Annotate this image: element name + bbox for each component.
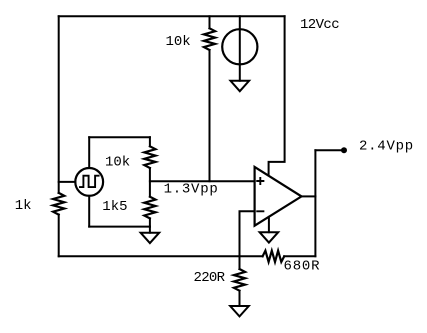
wire bottom right segment: [284, 255, 315, 257]
wire op-amp output: [302, 195, 316, 197]
wire box right upper stub: [149, 137, 151, 146]
ground (under divider box): [141, 233, 160, 243]
svg-text:2.4Vpp: 2.4Vpp: [359, 139, 414, 155]
resistor 1k5: [144, 197, 155, 219]
wire left rail lower: [58, 215, 60, 257]
ground (under op-amp): [260, 232, 279, 242]
resistor 10k top: [204, 28, 215, 50]
svg-text:1k: 1k: [15, 198, 32, 214]
ground (under 220R): [230, 306, 249, 316]
wire op-amp power drop: [269, 16, 285, 175]
resistor 10k divider: [144, 146, 155, 168]
node output dot: [341, 147, 347, 153]
resistor 220R: [234, 269, 245, 291]
wire divider bottom stub: [149, 218, 151, 226]
wire output vertical: [314, 150, 316, 256]
wire tap to op-amp plus input: [150, 180, 255, 182]
svg-text:1k5: 1k5: [102, 199, 127, 215]
ground (under current source): [231, 81, 250, 91]
wire box bottom: [89, 226, 150, 228]
svg-text:220R: 220R: [194, 270, 226, 286]
wire 10k branch top: [209, 16, 211, 28]
wire bottom rail: [59, 255, 263, 257]
wire 10k branch bottom: [209, 50, 211, 181]
wire current source branch: [239, 16, 241, 81]
op-amp minus sign: [257, 210, 263, 212]
wire 220R top stub: [239, 256, 241, 269]
svg-text:680R: 680R: [284, 259, 321, 275]
svg-text:12Vcc: 12Vcc: [300, 17, 339, 33]
current source I1: [222, 29, 257, 64]
square-wave glyph: [80, 176, 99, 187]
op-amp plus sign: [257, 178, 263, 184]
wire divider middle: [149, 168, 151, 197]
resistor 1k: [53, 193, 64, 215]
wire box top: [89, 136, 150, 138]
svg-text:1.3Vpp: 1.3Vpp: [164, 182, 219, 198]
svg-text:10k: 10k: [166, 34, 191, 50]
wire top rail: [59, 15, 285, 17]
wire square-wave source left stub: [59, 181, 76, 183]
wire inverting input: [240, 211, 255, 256]
wire box ground stub: [149, 227, 151, 233]
wire output top: [315, 149, 344, 151]
resistor 680R: [263, 251, 285, 262]
square-wave source V1: [75, 168, 103, 196]
wire left rail upper: [58, 16, 60, 193]
wire op-amp ground stub: [268, 217, 270, 232]
op-amp U1: [255, 167, 302, 226]
svg-text:10k: 10k: [105, 155, 130, 171]
wire source bottom stub: [88, 196, 90, 227]
wire 220R bottom stub: [239, 291, 241, 306]
wire source top stub: [88, 137, 90, 168]
